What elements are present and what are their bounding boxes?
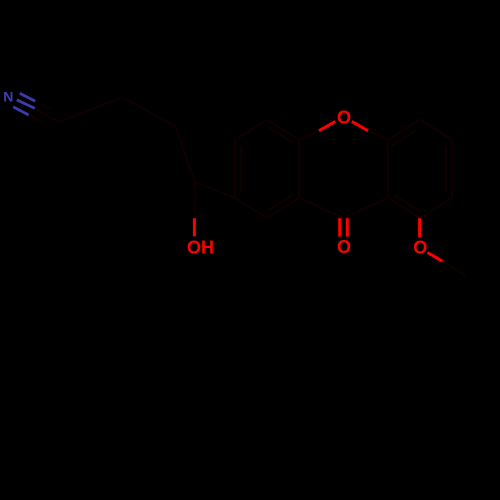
ring B right benzene — [388, 119, 452, 218]
nitrile triple bond N#C blue halves — [13, 93, 35, 115]
methoxy O-CH3 bond red half — [428, 253, 443, 262]
wire bond C3-C4 of chain — [175, 126, 195, 182]
svg-text:O: O — [337, 108, 351, 128]
nitrile triple bond carbon halves — [29, 101, 59, 123]
ether O1 bonds dark halves and central ring bottom — [299, 131, 388, 218]
bond C4 to ring A — [195, 182, 235, 198]
bond C4-O hydroxyl red half — [193, 218, 196, 236]
methoxy O-CH3 bond dark half — [443, 261, 467, 276]
methoxy bond ring to O red — [418, 218, 421, 237]
svg-text:N: N — [3, 89, 13, 105]
ether O1 bonds red halves — [319, 121, 368, 130]
svg-text:O: O — [337, 237, 351, 257]
svg-text:OH: OH — [187, 238, 214, 258]
wire bond C2-C3 of chain — [122, 97, 175, 126]
carbonyl C=O double bond red — [340, 218, 348, 236]
wire bond C1-C2 of chain — [59, 97, 122, 122]
svg-text:O: O — [413, 238, 427, 258]
ring A left benzene — [235, 120, 300, 219]
bond C4-O hydroxyl dark half — [193, 182, 196, 218]
